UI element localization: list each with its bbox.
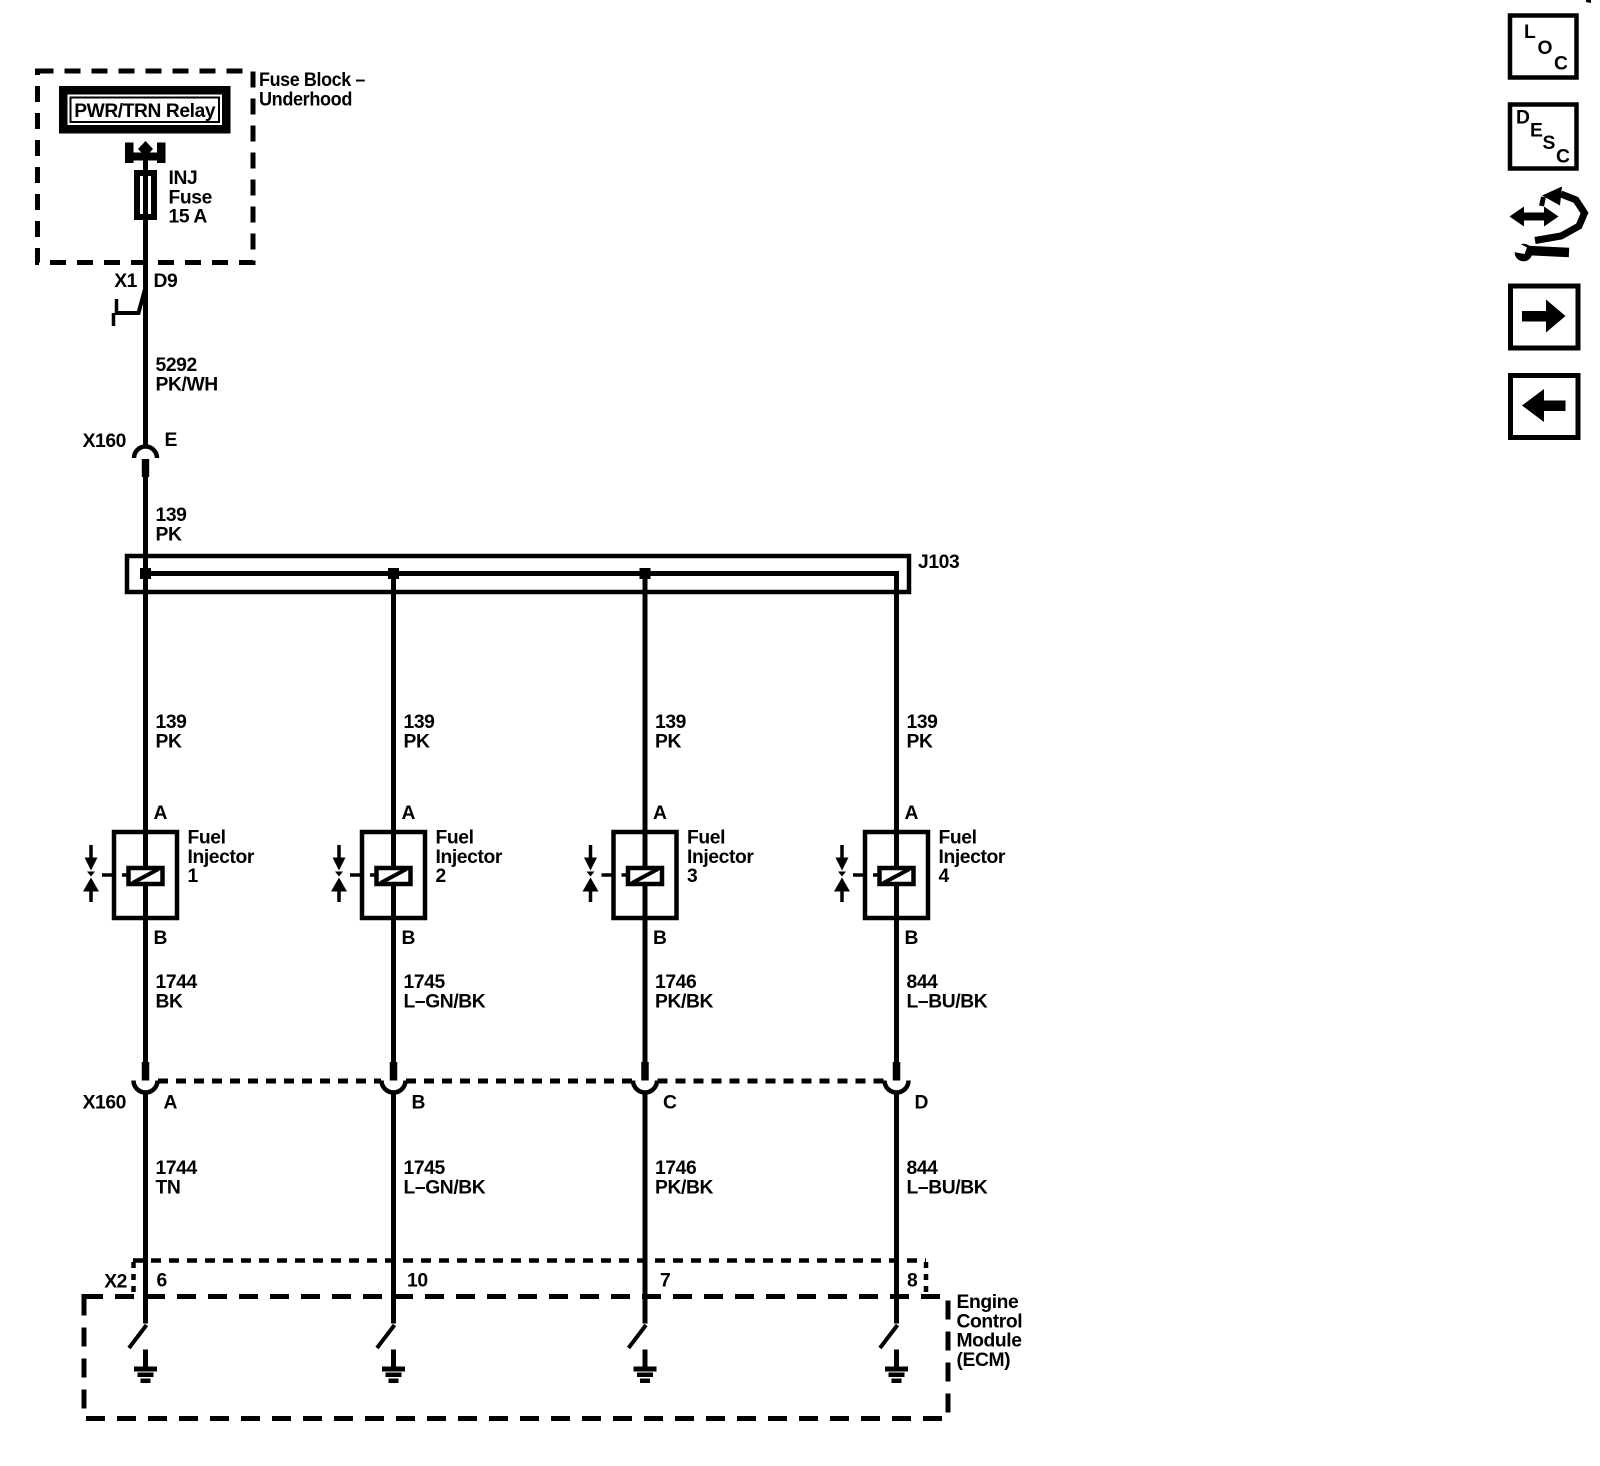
svg-text:A: A (653, 803, 667, 824)
valve to coil link col 4 (853, 873, 878, 877)
wire injector 4 to connector X160 (893, 1062, 901, 1081)
ECM driver switch col 4 (880, 1325, 898, 1348)
svg-text:TN: TN (156, 1177, 181, 1198)
svg-text:Injector: Injector (188, 847, 255, 868)
wire injector 3 to connector X160 (641, 1062, 649, 1081)
svg-text:8: 8 (907, 1271, 918, 1292)
svg-text:1: 1 (188, 866, 199, 887)
label wire 139 PK col 2 (404, 712, 435, 752)
valve to coil link col 2 (350, 873, 375, 877)
svg-text:PK: PK (156, 731, 182, 752)
svg-text:L–GN/BK: L–GN/BK (404, 991, 486, 1012)
svg-text:1746: 1746 (655, 972, 697, 993)
corner tick mark (1586, 0, 1591, 3)
label wire 5292 PK/WH (156, 355, 218, 395)
svg-text:1745: 1745 (404, 1158, 446, 1179)
svg-text:C: C (1554, 54, 1568, 75)
svg-text:A: A (402, 803, 416, 824)
fuel injector 1 valve nozzle symbol (83, 845, 99, 902)
icon troubleshooting shortcut (arrows and wrench) (1508, 187, 1585, 262)
label wire 1744 TN (lower) (156, 1158, 198, 1198)
svg-text:10: 10 (407, 1271, 428, 1292)
label wire 1746 PK/BK (655, 972, 713, 1012)
svg-text:Injector: Injector (939, 847, 1006, 868)
fuel injector 2 coil (377, 868, 411, 884)
svg-text:INJ: INJ (169, 168, 198, 189)
ground col 1 (134, 1350, 157, 1384)
svg-text:D: D (1516, 108, 1530, 129)
svg-text:L–BU/BK: L–BU/BK (907, 991, 988, 1012)
svg-text:L: L (1524, 22, 1536, 43)
wire X160 B to ECM pin 10 (391, 1094, 396, 1324)
inline connector X160 terminal E (134, 447, 157, 478)
svg-text:844: 844 (907, 972, 939, 993)
svg-text:1744: 1744 (156, 1158, 198, 1179)
connector X1 terminal D9 symbol (114, 289, 146, 326)
fuel injector 2 box (362, 832, 425, 918)
svg-text:B: B (154, 928, 168, 949)
svg-text:PK: PK (907, 731, 933, 752)
wire injector 1 to connector X160 (142, 1062, 150, 1081)
wire connector E to splice J103 and down to injector 1 (143, 476, 148, 1064)
svg-text:PK: PK (655, 731, 681, 752)
label wire 844 L–BU/BK (907, 972, 988, 1012)
svg-text:Fuel: Fuel (687, 828, 725, 849)
splice pack J103 outline box (127, 556, 909, 592)
svg-text:B: B (905, 928, 919, 949)
svg-text:Fuse Block –: Fuse Block – (259, 70, 366, 91)
svg-text:C: C (663, 1093, 677, 1114)
svg-text:E: E (1530, 121, 1543, 142)
label wire 1745 L–GN/BK (404, 972, 486, 1012)
svg-text:(ECM): (ECM) (957, 1350, 1011, 1371)
label wire 139 PK col 1 (156, 712, 187, 752)
svg-text:PK/WH: PK/WH (156, 374, 218, 395)
wire X160 C to ECM pin 7 (643, 1094, 648, 1324)
ECM dashed box (84, 1297, 948, 1419)
icon LOC button (1510, 16, 1577, 78)
fuel injector 2 valve nozzle symbol (331, 845, 347, 902)
label Fuel Injector 3 (687, 828, 754, 888)
label Fuse Block - Underhood (259, 70, 366, 110)
svg-text:E: E (165, 430, 178, 451)
relay PWR/TRN Relay box (59, 86, 231, 134)
label wire 844 L–BU/BK (lower) (907, 1158, 988, 1198)
svg-text:Injector: Injector (436, 847, 503, 868)
label INJ Fuse 15 A (169, 168, 213, 228)
svg-text:B: B (412, 1093, 426, 1114)
svg-text:X160: X160 (83, 431, 126, 452)
wire splice to injector 2 (391, 571, 396, 1064)
svg-text:Fuse: Fuse (169, 187, 213, 208)
svg-text:1744: 1744 (156, 972, 198, 993)
label wire 1744 BK (156, 972, 198, 1012)
label wire 1746 PK/BK (lower) (655, 1158, 713, 1198)
svg-text:A: A (164, 1093, 178, 1114)
svg-text:4: 4 (939, 866, 950, 887)
svg-text:J103: J103 (918, 552, 960, 573)
wire splice to injector 3 (643, 571, 648, 1064)
svg-text:A: A (905, 803, 919, 824)
svg-text:139: 139 (156, 505, 187, 526)
svg-text:7: 7 (660, 1271, 670, 1292)
svg-text:O: O (1538, 38, 1553, 59)
connector X160 row dashed link (158, 1079, 884, 1084)
wire relay through fuse to connector X160 (143, 157, 148, 446)
label Fuel Injector 2 (436, 828, 503, 888)
svg-text:L–BU/BK: L–BU/BK (907, 1177, 988, 1198)
svg-text:X1: X1 (114, 271, 137, 292)
junction dot col 3 (640, 568, 651, 579)
svg-text:PWR/TRN Relay: PWR/TRN Relay (74, 101, 216, 122)
svg-text:Control: Control (957, 1311, 1023, 1332)
svg-text:Engine: Engine (957, 1292, 1020, 1313)
connector X160 terminal D cup (885, 1081, 909, 1093)
svg-text:3: 3 (687, 866, 698, 887)
ground col 4 (885, 1350, 908, 1384)
svg-text:L–GN/BK: L–GN/BK (404, 1177, 486, 1198)
svg-text:S: S (1543, 133, 1556, 154)
label wire 139 PK (156, 505, 187, 545)
svg-text:139: 139 (655, 712, 686, 733)
ECM driver switch col 2 (377, 1325, 395, 1348)
junction dot col 1 (140, 568, 151, 579)
svg-text:2: 2 (436, 866, 446, 887)
wire X160 A to ECM pin 6 (143, 1094, 148, 1324)
svg-text:D: D (915, 1093, 929, 1114)
svg-text:X2: X2 (104, 1272, 127, 1293)
wire X160 D to ECM pin 8 (894, 1094, 899, 1324)
svg-text:Fuel: Fuel (188, 828, 226, 849)
valve to coil link col 1 (102, 873, 127, 877)
svg-text:Fuel: Fuel (436, 828, 474, 849)
fuel injector 4 box (865, 832, 928, 918)
label Fuel Injector 4 (939, 828, 1006, 888)
svg-text:PK/BK: PK/BK (655, 1177, 713, 1198)
svg-text:Injector: Injector (687, 847, 754, 868)
ground col 3 (634, 1350, 657, 1384)
svg-text:844: 844 (907, 1158, 939, 1179)
connector X160 terminal B cup (382, 1081, 406, 1093)
svg-text:PK: PK (404, 731, 430, 752)
ground col 2 (382, 1350, 405, 1384)
label Fuel Injector 1 (188, 828, 255, 888)
svg-text:B: B (402, 928, 416, 949)
ECM driver switch col 3 (629, 1325, 647, 1348)
fuel injector 4 coil (880, 868, 914, 884)
svg-text:Module: Module (957, 1331, 1023, 1352)
connector X160 terminal A cup (134, 1081, 158, 1093)
svg-text:139: 139 (907, 712, 938, 733)
svg-text:Underhood: Underhood (259, 89, 352, 110)
svg-text:B: B (653, 928, 667, 949)
label wire 139 PK col 4 (907, 712, 938, 752)
svg-text:C: C (1556, 147, 1570, 168)
icon previous page arrow button (1511, 376, 1579, 438)
svg-text:1745: 1745 (404, 972, 446, 993)
icon DESC button (1510, 105, 1577, 169)
connector X2 dotted strip (133, 1261, 926, 1295)
wire injector 2 to connector X160 (390, 1062, 398, 1081)
relay contact output terminal (125, 141, 166, 163)
svg-text:PK: PK (156, 524, 182, 545)
svg-text:D9: D9 (154, 271, 178, 292)
splice bus bar J103 (141, 571, 897, 576)
label Engine Control Module (ECM) (957, 1292, 1023, 1371)
fuel injector 4 valve nozzle symbol (834, 845, 850, 902)
fuse INJ 15 A (137, 173, 154, 217)
fuse block underhood dashed box (38, 71, 254, 263)
svg-text:X160: X160 (83, 1093, 126, 1114)
valve to coil link col 3 (602, 873, 627, 877)
fuel injector 1 coil (129, 868, 163, 884)
icon next page arrow button (1511, 286, 1579, 348)
fuel injector 3 coil (628, 868, 662, 884)
fuel injector 3 valve nozzle symbol (583, 845, 599, 902)
fuel injector 3 box (614, 832, 677, 918)
svg-text:1746: 1746 (655, 1158, 697, 1179)
svg-text:PK/BK: PK/BK (655, 991, 713, 1012)
connector X160 terminal C cup (633, 1081, 657, 1093)
svg-text:139: 139 (404, 712, 435, 733)
label wire 139 PK col 3 (655, 712, 686, 752)
svg-text:5292: 5292 (156, 355, 197, 376)
junction dot col 2 (388, 568, 399, 579)
svg-text:BK: BK (156, 991, 184, 1012)
fuel injector 1 box (114, 832, 177, 918)
ECM driver switch col 1 (129, 1325, 147, 1348)
svg-text:15 A: 15 A (169, 207, 208, 228)
svg-text:A: A (154, 803, 168, 824)
svg-text:Fuel: Fuel (939, 828, 977, 849)
label wire 1745 L–GN/BK (lower) (404, 1158, 486, 1198)
svg-text:6: 6 (157, 1271, 168, 1292)
svg-text:139: 139 (156, 712, 187, 733)
wire splice to injector 4 (894, 571, 899, 1064)
